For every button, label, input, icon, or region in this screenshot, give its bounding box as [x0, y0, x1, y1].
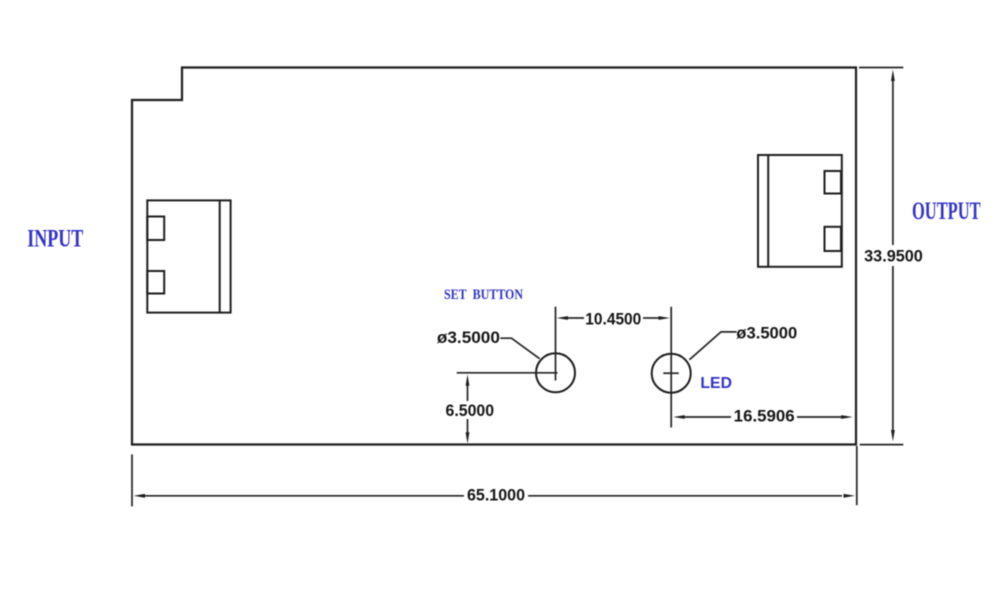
svg-text:INPUT: INPUT [27, 226, 83, 253]
svg-text:10.4500: 10.4500 [585, 311, 641, 329]
svg-text:65.1000: 65.1000 [467, 487, 525, 505]
svg-text:LED: LED [700, 375, 732, 392]
svg-text:33.9500: 33.9500 [864, 248, 923, 266]
svg-text:16.5906: 16.5906 [734, 408, 795, 426]
svg-text:ø3.5000: ø3.5000 [736, 325, 797, 343]
svg-text:ø3.5000: ø3.5000 [437, 329, 500, 347]
svg-text:SET BUTTON: SET BUTTON [444, 287, 523, 303]
svg-text:OUTPUT: OUTPUT [912, 198, 981, 225]
svg-text:6.5000: 6.5000 [446, 402, 495, 420]
